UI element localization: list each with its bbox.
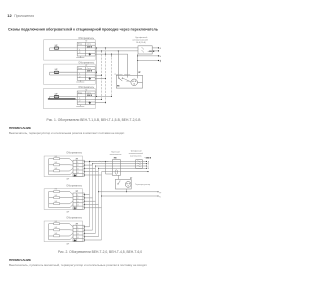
svg-text:2: 2	[77, 198, 78, 200]
wire H3 row1	[95, 96, 111, 98]
ground symbol B3	[74, 239, 76, 242]
wire H2 row3	[95, 77, 105, 79]
terminal block B2	[73, 193, 84, 209]
B1 junction dots	[84, 161, 85, 175]
bus vertical W5	[101, 172, 103, 240]
svg-text:1: 1	[79, 98, 80, 100]
feeder wire B	[93, 163, 147, 165]
drop wire to box left	[117, 51, 119, 75]
feeder wire PE	[102, 171, 149, 173]
B3 exit wires	[84, 227, 101, 240]
drop to thermostat	[106, 161, 113, 174]
heavy lower lead H3	[48, 98, 76, 100]
svg-text:ЭН2: ЭН2	[54, 162, 57, 164]
heating element EK3	[54, 170, 60, 172]
svg-text:розетка: розетка	[124, 74, 130, 76]
svg-text:4: 4	[77, 205, 78, 207]
bus vertical W4	[98, 168, 100, 236]
svg-text:220 В: 220 В	[87, 46, 93, 48]
bus vertical V3 (dashed)	[105, 48, 107, 103]
B3 internal bus	[49, 224, 73, 240]
svg-text:ЭН1: ЭН1	[54, 156, 57, 158]
wire H1 pair to terminal	[50, 48, 78, 51]
wire H2 pair to terminal	[50, 72, 78, 75]
svg-text:1: 1	[77, 162, 78, 164]
heater unit H2 box	[44, 64, 96, 84]
svg-text:Фаза: Фаза	[78, 67, 82, 70]
svg-text:N: N	[148, 168, 150, 170]
wire out PE	[138, 60, 159, 62]
svg-text:N: N	[160, 56, 162, 58]
feeder junction dots	[89, 161, 106, 169]
svg-text:ШР: ШР	[66, 179, 70, 181]
svg-text:РТ: РТ	[130, 178, 133, 180]
heater unit B2 box	[44, 189, 82, 210]
breaker QF1 contacts	[142, 47, 145, 53]
svg-text:N: N	[159, 197, 161, 199]
wire H3 row2	[95, 99, 101, 101]
svg-text:3: 3	[77, 234, 78, 236]
socket top stub	[137, 75, 139, 78]
svg-text:ЭН3: ЭН3	[54, 168, 57, 170]
ground symbol in XT3	[89, 102, 91, 104]
svg-text:Фаза: Фаза	[78, 43, 82, 46]
svg-text:~220: ~220	[126, 81, 130, 83]
wire H1 row3 to switch box	[95, 54, 127, 75]
B1 element leads	[60, 159, 74, 171]
B3 element leads	[60, 224, 74, 236]
svg-text:1: 1	[77, 227, 78, 229]
supply terminal dots diagram 2	[146, 161, 159, 197]
bus vertical V1	[96, 48, 98, 97]
switch and socket box	[116, 75, 142, 88]
svg-text:16 А (10 А): 16 А (10 А)	[136, 41, 146, 44]
bus vertical V4 (dashed)	[111, 54, 113, 96]
svg-text:ХР: ХР	[138, 72, 141, 74]
svg-text:1: 1	[77, 195, 78, 197]
svg-text:2: 2	[79, 76, 80, 78]
stub below XT1	[76, 56, 84, 58]
heating element EK7	[54, 223, 60, 225]
drop wire from breaker to box	[137, 54, 139, 75]
svg-text:~380 В: ~380 В	[144, 158, 151, 160]
junction dots diagram 1	[96, 47, 138, 103]
svg-text:ЭН3: ЭН3	[54, 233, 57, 235]
feeder wire C	[96, 165, 147, 167]
svg-text:12: 12	[7, 13, 12, 18]
centre stub	[127, 75, 129, 77]
svg-text:ЭН1: ЭН1	[54, 189, 57, 191]
heater unit H3 box	[44, 88, 96, 108]
svg-text:Схемы подключения обогревателе: Схемы подключения обогревателей к стацио…	[8, 28, 159, 32]
svg-text:ПРИМЕЧАНИЕ: ПРИМЕЧАНИЕ	[9, 126, 31, 130]
switch SA1	[117, 75, 119, 77]
heater unit H1 box	[44, 40, 96, 60]
svg-text:~220 В: ~220 В	[148, 51, 155, 53]
long wire taps	[98, 191, 127, 196]
wire H3 row3	[95, 102, 105, 104]
wire out N	[138, 55, 159, 57]
long wire ground	[99, 191, 158, 193]
heater unit B3 box	[44, 221, 82, 242]
stub below XT3	[76, 105, 84, 107]
svg-text:ЭН3: ЭН3	[54, 201, 57, 203]
thermostat contact	[118, 183, 119, 184]
bus vertical V2 (dashed)	[101, 51, 103, 100]
svg-text:ПВ: ПВ	[114, 158, 117, 160]
B2 junction dots	[84, 194, 85, 208]
svg-text:2: 2	[77, 165, 78, 167]
svg-text:выключатель: выключатель	[110, 154, 122, 156]
packet switch oval	[115, 170, 117, 174]
B2 exit wires	[84, 195, 101, 208]
switch-thermostat link	[118, 175, 120, 179]
heating element EK4	[54, 191, 60, 193]
svg-text:1: 1	[79, 74, 80, 76]
heating element EK9	[54, 235, 60, 237]
svg-text:2: 2	[77, 230, 78, 232]
wire out neutral	[152, 50, 158, 52]
breaker QF1 box	[138, 46, 152, 54]
thermostat bottom drop	[125, 189, 127, 192]
breaker QF2 box	[136, 160, 143, 169]
svg-text:ШР: ШР	[66, 211, 70, 213]
svg-text:Рис. 1. Обогреватели ВЕН-Т-1,0: Рис. 1. Обогреватели ВЕН-Т-1,0-В, ВЕН-Т-…	[47, 118, 142, 122]
svg-text:3: 3	[77, 169, 78, 171]
ground symbol B2	[74, 207, 76, 210]
wire H2 row2	[95, 74, 101, 76]
ground symbol in XT2	[89, 77, 91, 79]
svg-text:4: 4	[77, 237, 78, 239]
svg-text:ПРИМЕЧАНИЕ: ПРИМЕЧАНИЕ	[9, 258, 31, 262]
svg-text:220 В: 220 В	[87, 95, 93, 97]
heating element EK8	[54, 229, 60, 231]
feeder wire N	[99, 167, 147, 169]
svg-text:1: 1	[79, 49, 80, 51]
socket right wire	[137, 81, 142, 83]
svg-text:Выключатель, терморегулятор и: Выключатель, терморегулятор и штепсельна…	[9, 131, 125, 135]
heating element EK5	[54, 197, 60, 199]
heating element EK6	[54, 203, 60, 205]
svg-text:Приложения: Приложения	[14, 14, 34, 18]
svg-text:ЭН2: ЭН2	[54, 195, 57, 197]
breaker QF2 contacts	[138, 161, 141, 167]
svg-text:Выключатель, пускатель магнитн: Выключатель, пускатель магнитный, термор…	[9, 263, 147, 267]
svg-text:Обогреватель: Обогреватель	[66, 152, 82, 155]
bus vertical W1	[89, 162, 91, 227]
svg-text:ЭН2: ЭН2	[54, 227, 57, 229]
wire H1 row2	[95, 50, 101, 52]
wire H3 pair to terminal	[50, 97, 78, 100]
svg-text:Рис. 2. Обогреватели ВЕН-Т-2,0: Рис. 2. Обогреватели ВЕН-Т-2,0, ВЕН-Т-4,…	[58, 250, 142, 254]
wire phase H1 to breaker	[95, 47, 138, 49]
svg-text:220 В: 220 В	[87, 71, 93, 73]
packet switch box	[112, 160, 120, 176]
svg-text:2: 2	[79, 101, 80, 103]
svg-text:выключатель: выключатель	[130, 156, 142, 158]
svg-text:ЭН1: ЭН1	[54, 221, 57, 223]
B1 internal bus	[49, 159, 73, 175]
svg-text:Переключ.: Переключ.	[115, 74, 124, 76]
svg-text:РТ: РТ	[159, 193, 161, 195]
heating element EK2	[54, 164, 60, 166]
terminal block XT3 table	[77, 91, 95, 105]
terminal block XT1 table	[77, 42, 95, 56]
long wire neutral	[102, 195, 158, 197]
svg-text:3: 3	[77, 201, 78, 203]
wire out phase	[152, 47, 158, 49]
plug XP2	[54, 71, 58, 73]
terminal block B1	[73, 160, 84, 176]
ground symbol in XT1	[89, 53, 91, 55]
svg-text:Фаза: Фаза	[78, 91, 82, 94]
svg-text:Обогреватель: Обогреватель	[66, 217, 82, 220]
heater unit B1 box	[44, 156, 82, 177]
bus vertical W2	[92, 164, 94, 230]
thermostat box SK1	[115, 179, 131, 189]
svg-text:ПВ: ПВ	[117, 86, 120, 88]
stub below XT2	[76, 80, 84, 82]
feeder wire A	[90, 160, 147, 162]
wire H2 row1	[95, 71, 96, 73]
B3 junction dots	[84, 226, 85, 240]
B1 exit wires	[84, 162, 101, 175]
svg-text:4: 4	[77, 172, 78, 174]
svg-text:Обогреватель: Обогреватель	[66, 184, 82, 187]
ground terminal symbol	[160, 60, 161, 62]
arrow on V4	[111, 56, 112, 58]
socket XS1	[131, 79, 138, 86]
plug XP3	[54, 96, 58, 98]
svg-text:Терморегулятор: Терморегулятор	[135, 184, 151, 186]
ground symbol B1	[74, 174, 76, 177]
supply terminal dots	[158, 47, 159, 61]
svg-text:2: 2	[79, 52, 80, 54]
heating element EK1	[54, 158, 60, 160]
wire neutral to breaker	[102, 50, 139, 52]
thermostat dial	[125, 182, 131, 188]
bus vertical W3	[95, 166, 97, 233]
B2 element leads	[60, 192, 74, 204]
B2 internal bus	[49, 192, 73, 208]
plug XP1	[54, 47, 58, 49]
svg-text:Ф: Ф	[160, 47, 162, 50]
svg-text:ШР: ШР	[66, 244, 70, 246]
terminal block B3	[73, 225, 84, 241]
terminal block XT2 table	[77, 67, 95, 81]
